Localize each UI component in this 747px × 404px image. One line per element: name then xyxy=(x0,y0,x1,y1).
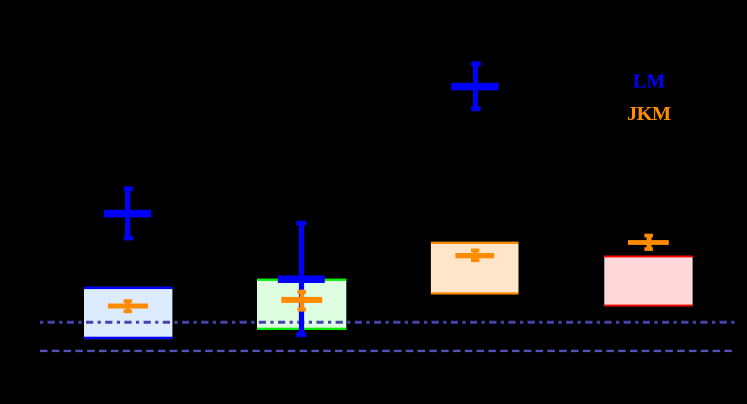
box group 2 bottom border xyxy=(257,328,346,330)
box group 1 top border xyxy=(84,287,172,290)
dashed reference line xyxy=(40,350,736,352)
JKM error cross group 3 xyxy=(455,249,494,263)
box group 3 top border xyxy=(431,242,519,244)
box group 4 fill xyxy=(604,256,692,307)
box group 3 fill xyxy=(431,242,519,295)
box group 2 top border xyxy=(257,279,346,281)
dash-dot reference line xyxy=(40,321,736,324)
box group 3 bottom border xyxy=(431,292,519,294)
JKM error cross group 4 xyxy=(628,234,669,251)
box group 2 fill xyxy=(257,279,346,330)
LM error cross group 2 (tall) xyxy=(278,221,325,337)
box group 4 bottom border xyxy=(604,305,692,307)
svg-text:LM: LM xyxy=(633,71,665,93)
box group 1 (LM/JKM site 1) fill xyxy=(84,287,172,339)
JKM error cross group 2 xyxy=(281,290,322,312)
LM error cross group 3 xyxy=(451,61,498,111)
svg-text:JKM: JKM xyxy=(627,103,671,125)
LM error cross group 1 xyxy=(104,186,151,240)
JKM error cross group 1 xyxy=(108,299,148,313)
box group 1 bottom border xyxy=(84,337,172,339)
box group 4 top border xyxy=(604,256,692,258)
